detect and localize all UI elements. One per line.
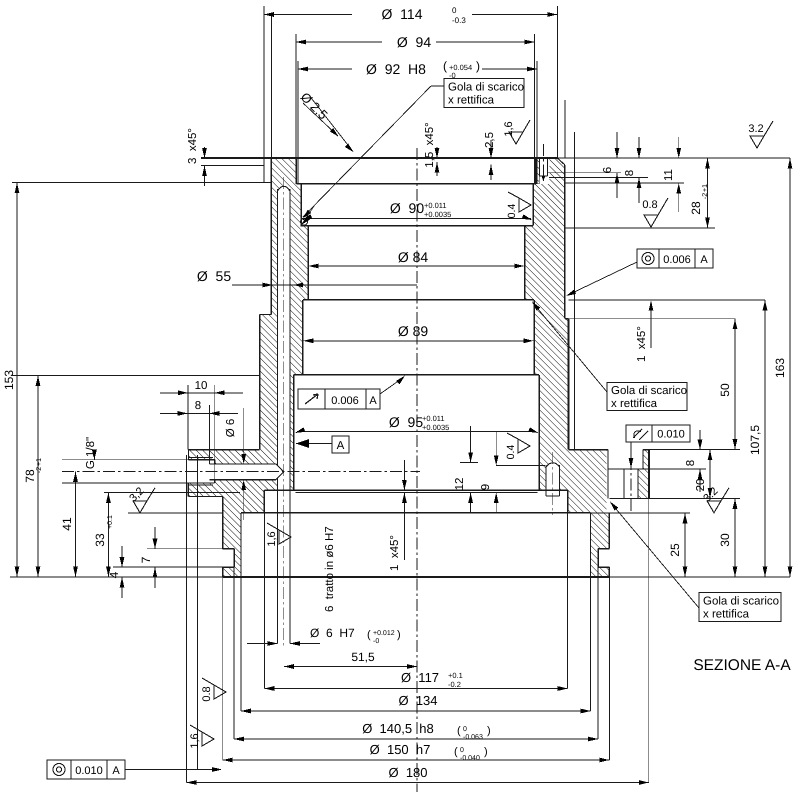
hatched right flange ring (591, 513, 610, 577)
cylindricity 0.010 box (626, 425, 690, 442)
svg-text:0.006: 0.006 (331, 395, 359, 407)
svg-text:25: 25 (668, 543, 682, 557)
bore 92 wall left (295, 158, 297, 184)
surface finish 0.8 (bore 90) (644, 198, 668, 227)
dimension 7 (154, 527, 156, 549)
svg-text:+0.0035: +0.0035 (422, 423, 449, 432)
leader from 0.006 left box (380, 377, 404, 394)
svg-text:0.010: 0.010 (75, 765, 103, 777)
svg-text:+0.1: +0.1 (448, 671, 463, 680)
hatched right top flange block (549, 158, 564, 184)
svg-text:50: 50 (718, 383, 732, 397)
right flange top (569, 449, 609, 451)
hatched right rim below groove (638, 469, 649, 498)
dimension 4 (121, 546, 123, 567)
top-right slot (groove ring) white (539, 157, 547, 176)
svg-text:8: 8 (624, 170, 636, 176)
extension line groove bottom right (649, 468, 706, 470)
bore 84 wall left (307, 226, 309, 300)
dimension 8 (port) (208, 405, 210, 464)
hatched right wall (bore 89 upper) (534, 300, 565, 319)
hatched left wall (bore 84) (271, 226, 308, 300)
hatched right wall (bore 84) (525, 226, 565, 300)
part top surface (201, 157, 557, 159)
inner shelf at bore 92 bottom (296, 183, 536, 185)
surface finish 1.6 (o6 hole) (266, 523, 291, 547)
flange 140.5 extensions (233, 567, 235, 739)
svg-text:-0.2: -0.2 (448, 680, 461, 689)
svg-text:51,5: 51,5 (351, 650, 375, 664)
svg-text:Ø 94: Ø 94 (397, 34, 431, 50)
svg-text:SEZIONE A-A: SEZIONE A-A (693, 657, 791, 674)
hatched right wall (bore 89 lower, stepped out) (534, 319, 569, 375)
svg-text:1,6: 1,6 (266, 531, 278, 546)
right flange top chamfer (557, 158, 565, 165)
svg-text:+1: +1 (702, 184, 709, 192)
flange bottom left ledge line (12, 182, 271, 184)
extension line y299.8 right (569, 299, 766, 301)
svg-text:-0: -0 (373, 638, 379, 645)
svg-text:0.4: 0.4 (506, 204, 518, 219)
svg-text:7: 7 (139, 556, 153, 563)
flange bottom extension to left (10, 576, 223, 578)
flange outer right profile (608, 513, 610, 549)
svg-text:(: ( (457, 725, 461, 737)
extension line bore89/95 shelf to left (12, 374, 260, 376)
part axis centerline (416, 148, 418, 792)
flange bottom (223, 576, 610, 578)
svg-text:9: 9 (480, 484, 492, 490)
svg-text:41: 41 (60, 517, 74, 531)
svg-text:0: 0 (460, 747, 464, 754)
svg-text:): ) (487, 725, 491, 737)
hatched left wall upper (bore 90) (271, 184, 301, 226)
svg-text:(: ( (454, 746, 458, 758)
svg-text:0: 0 (452, 6, 457, 15)
dimension 30 (734, 498, 736, 577)
svg-text:6: 6 (602, 167, 614, 173)
dimension O6 H7 (247, 643, 278, 645)
svg-text:+0.012: +0.012 (373, 630, 395, 637)
top chamfer line left (201, 165, 264, 167)
label gola di scarico mid box (607, 383, 687, 411)
dimension 107,5 (764, 300, 766, 577)
vertical hole o6 in left wall (white channel) (278, 189, 291, 490)
hatched left wall (bore 95) (260, 375, 294, 450)
leader from gola box to groove corner (431, 85, 444, 87)
svg-text:(: ( (367, 629, 371, 641)
extension line flange bottom right (609, 576, 790, 578)
svg-text:Ø 134: Ø 134 (398, 693, 437, 708)
extension line rim face right (649, 497, 740, 499)
dimension 11 (678, 137, 680, 158)
svg-text:8: 8 (195, 400, 201, 412)
left wall outer edge lower (259, 314, 261, 449)
bore 95 floor (264, 489, 567, 491)
flange 150 extensions (222, 577, 224, 760)
dimension O134 (241, 710, 591, 712)
svg-text:Ø 6: Ø 6 (225, 419, 237, 438)
left flange chamfer ext vertical (270, 15, 272, 158)
port counterbore G1/8 (white) (188, 460, 214, 483)
svg-text:10: 10 (195, 380, 208, 392)
dimension O117 (264, 688, 567, 690)
bore 95 wall left (293, 375, 295, 490)
left wall outer edge (270, 158, 272, 314)
surface finish 3.2 left flange (128, 512, 223, 514)
surface finish 0.8 bottom left (201, 678, 226, 702)
hatched left wall beside port (264, 450, 293, 490)
hatched left flange ring (223, 513, 241, 577)
text gap (352, 62, 482, 78)
dimension 78 (37, 375, 39, 577)
port centerline (62, 470, 420, 472)
outer wall left step (260, 313, 272, 315)
svg-text:1,6: 1,6 (503, 121, 515, 136)
top surface extension line right (557, 157, 790, 159)
bore 95 wall right (538, 375, 540, 490)
svg-text:Ø 6 H7: Ø 6 H7 (310, 626, 355, 640)
svg-text:0.4: 0.4 (505, 445, 517, 460)
svg-text:-2: -2 (36, 467, 43, 473)
svg-text:+0.1: +0.1 (107, 515, 114, 529)
flange 180 extensions (186, 455, 188, 783)
svg-text:(: ( (443, 59, 447, 73)
svg-text:-0.063: -0.063 (463, 734, 483, 741)
surface 0.4 symbol near o90 wall (508, 192, 531, 212)
svg-text:3.2: 3.2 (748, 123, 763, 135)
recess 134 ring edge right (590, 513, 592, 577)
extension line recess ceiling right (591, 512, 690, 514)
bore 84 / 89 step (303, 299, 534, 301)
svg-text:153: 153 (2, 370, 16, 390)
bore 90 wall right (532, 184, 534, 226)
hatched left wall (bore 89 lower, stepped out) (260, 314, 303, 375)
roundness 0.010 A box bottom left (47, 760, 125, 779)
flange outer left profile (222, 496, 224, 548)
svg-text:Ø 180: Ø 180 (388, 765, 427, 780)
svg-text:78: 78 (23, 469, 37, 483)
left flange top (boss) (188, 449, 259, 451)
svg-text:0.8: 0.8 (201, 686, 213, 701)
dimension 6 (616, 132, 618, 158)
dimension 28 (707, 158, 709, 228)
extension line y228 right (565, 227, 715, 229)
svg-text:x rettifica: x rettifica (703, 609, 750, 621)
bore 84 wall right (524, 226, 526, 300)
runout 0.006 box left (298, 389, 380, 409)
bore 90 wall left (300, 184, 302, 226)
text gap (352, 7, 472, 23)
groove bottom right flange (609, 468, 649, 470)
svg-text:Ø 84: Ø 84 (398, 249, 429, 265)
left boss face (interrupted by port mouth) (187, 450, 189, 460)
dimension 51,5 (284, 666, 417, 668)
svg-text:6 tratto in ø6 H7: 6 tratto in ø6 H7 (324, 526, 336, 612)
extension line y318.7 right (569, 318, 736, 320)
leader from mid gola box (533, 303, 607, 392)
bore 95 floor chamfer line (296, 491, 538, 493)
port thread lines (189, 457, 213, 459)
dimension O114 top (556, 6, 558, 158)
svg-text:Ø 95: Ø 95 (389, 414, 423, 430)
svg-text:20: 20 (695, 479, 707, 492)
left flange ring notch (140.5 step) (223, 549, 234, 567)
svg-text:107,5: 107,5 (748, 425, 762, 455)
svg-text:A: A (112, 765, 120, 777)
svg-text:A: A (369, 395, 377, 407)
svg-text:2,5: 2,5 (484, 132, 496, 148)
svg-text:1,6: 1,6 (189, 733, 201, 748)
svg-text:Ø 114: Ø 114 (382, 6, 423, 22)
dimension 8 right (groove depth) (699, 430, 701, 450)
hatched left flange neck (223, 496, 265, 512)
leader from 0.010 box (630, 442, 632, 466)
svg-text:x rettifica: x rettifica (611, 398, 658, 410)
svg-text:A: A (700, 254, 708, 266)
hatched right wall (bore 95) (539, 375, 568, 450)
right small hole centerline (552, 452, 554, 515)
svg-text:): ) (397, 629, 401, 641)
svg-text:Ø 90: Ø 90 (390, 200, 424, 216)
hatched left boss around port (188, 450, 264, 497)
dimension 153 left (16, 183, 18, 578)
svg-text:+0.0035: +0.0035 (424, 210, 451, 219)
dimension O92 H8 (297, 61, 299, 184)
leader from roundness box (568, 262, 637, 295)
surface finish 1.6 bottom left (189, 725, 214, 749)
dimension 41 (75, 471, 77, 577)
dimension 12 (470, 426, 472, 462)
right wall outer edge (564, 165, 566, 319)
hatched right wall upper (bore 90) (533, 184, 565, 226)
right flange top groove (white gap) (608, 449, 643, 469)
recess 117 wall extensions (263, 490, 265, 689)
dimension O94 (295, 34, 297, 184)
svg-text:11: 11 (663, 169, 675, 181)
right rim outer edge (648, 450, 650, 498)
extension line y177.5 (549, 177, 648, 179)
recess 117 wall right (567, 490, 569, 513)
extension verticals top right (564, 100, 566, 158)
bore 92 wall right (535, 158, 537, 184)
svg-text:Gola di scarico: Gola di scarico (611, 385, 687, 397)
dimension 10 (port counterbore depth) (187, 385, 189, 450)
svg-text:1 x45°: 1 x45° (636, 326, 648, 362)
svg-text:): ) (484, 746, 488, 758)
extension line y172.7 (548, 172, 622, 174)
svg-text:163: 163 (773, 358, 787, 378)
surface finish 3.2 right flange (707, 488, 729, 513)
label gola di scarico top box (444, 79, 524, 108)
bore 89 wall right (533, 300, 535, 375)
svg-text:28: 28 (689, 201, 703, 215)
dimension 33 (107, 492, 109, 577)
surface finish 1.6 top (509, 120, 530, 144)
dimension 50 (734, 319, 736, 450)
outer wall right step (565, 318, 569, 320)
svg-text:x rettifica: x rettifica (448, 95, 495, 107)
dimension 25 right (684, 513, 686, 577)
svg-text:3 x45°: 3 x45° (187, 128, 199, 164)
bore 89 / 95 shelf (294, 374, 540, 376)
svg-text:-0.3: -0.3 (452, 16, 466, 25)
svg-text:30: 30 (718, 533, 732, 547)
relief groove arc at bore90 corner (301, 218, 308, 225)
label gola di scarico bottom right box (699, 593, 781, 622)
port small channel (white) (215, 464, 276, 480)
svg-text:1 x45°: 1 x45° (389, 535, 401, 571)
svg-text:Ø 89: Ø 89 (398, 323, 429, 339)
recess 134 wall extensions (240, 577, 242, 711)
leader from bottom gola box (611, 503, 699, 608)
svg-text:Ø 140,5 h8: Ø 140,5 h8 (362, 721, 434, 736)
svg-text:+1: +1 (36, 458, 43, 466)
dimension 8 (638, 137, 640, 158)
left boss bottom (188, 495, 222, 497)
hatched right flange rim (643, 450, 649, 469)
recess 134 ring edge left (240, 513, 242, 577)
dimension 163 (789, 158, 791, 577)
svg-text:1,5 x45°: 1,5 x45° (424, 122, 436, 168)
right flange ring notch (140.5 step) (598, 549, 609, 567)
extension lines for 7 and 4 (147, 548, 223, 550)
o6 hole centerline (283, 177, 285, 646)
right outer small hole walls (623, 469, 625, 498)
surface 0.4 symbol near o95 wall (507, 433, 530, 453)
bore 90 floor shelf (301, 225, 533, 227)
text gap (382, 35, 436, 51)
roundness 0.006 box right (637, 249, 713, 268)
svg-text:0.006: 0.006 (663, 254, 691, 266)
svg-text:Gola di scarico: Gola di scarico (703, 596, 779, 608)
hatched right flange block (539, 450, 567, 490)
svg-text:-2: -2 (702, 193, 709, 199)
svg-text:12: 12 (454, 478, 466, 491)
hatched left top flange block (271, 158, 296, 184)
svg-text:Ø 150 h7: Ø 150 h7 (370, 742, 431, 757)
dimension 9 (495, 432, 497, 465)
datum A flag (332, 436, 349, 453)
left flange outer edge (263, 6, 265, 183)
svg-text:8: 8 (685, 460, 697, 466)
extension line y183 right (565, 182, 684, 184)
svg-text:Ø 55: Ø 55 (197, 268, 231, 284)
svg-text:-0.040: -0.040 (460, 755, 480, 762)
hatched right flange block outer (568, 450, 607, 513)
svg-text:Gola di scarico: Gola di scarico (448, 82, 524, 94)
port drill cone tip (276, 464, 284, 480)
dimension O140,5 h8 (234, 738, 598, 740)
hatched left wall (bore 89 upper) (271, 300, 302, 315)
svg-text:A: A (337, 440, 345, 452)
surface finish 3.2 top right (750, 121, 773, 148)
extension line flange top right (649, 449, 740, 451)
svg-text:0.8: 0.8 (642, 199, 657, 211)
bore 89 wall left (302, 300, 304, 375)
svg-text:Ø 117: Ø 117 (401, 670, 439, 685)
port extension lines left (62, 459, 188, 461)
small vertical hole in right flange (white) (546, 466, 560, 496)
svg-text:Ø 92 H8: Ø 92 H8 (366, 61, 426, 77)
svg-text:0: 0 (463, 726, 467, 733)
right outer hole centerline (630, 458, 632, 512)
recess 117 wall left (263, 490, 265, 513)
svg-text:+0.011: +0.011 (422, 414, 445, 423)
svg-text:33: 33 (93, 533, 107, 547)
recess 117 ceiling (241, 512, 591, 514)
svg-text:): ) (476, 59, 480, 73)
svg-text:+0.011: +0.011 (424, 201, 447, 210)
svg-text:0.010: 0.010 (657, 429, 685, 441)
right rim outer face bottom (609, 497, 649, 499)
top-right slot centerline (542, 144, 544, 181)
dimension O150 h7 (223, 759, 610, 761)
port channel edges into wall (209, 463, 276, 465)
hatched thin strip left of top-right slot (536, 158, 540, 184)
dimension 20 (709, 450, 711, 499)
o6 hole wall extension lines down (277, 490, 279, 644)
dimension O180 (187, 782, 649, 784)
